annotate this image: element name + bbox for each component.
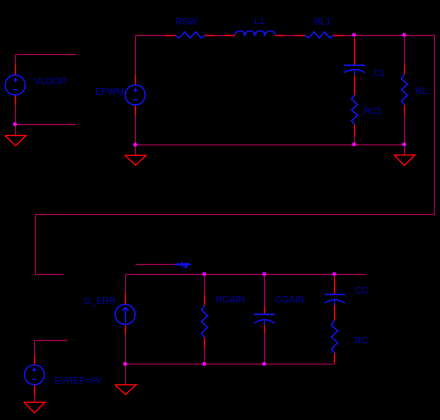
svg-text:RGAIN: RGAIN	[216, 295, 245, 305]
svg-text:VLOOP: VLOOP	[35, 76, 67, 86]
svg-text:RC1: RC1	[364, 106, 382, 116]
svg-text:RSW: RSW	[175, 16, 197, 26]
svg-text:RL: RL	[415, 86, 427, 96]
svg-text:EPWM: EPWM	[95, 86, 124, 96]
svg-text:CC: CC	[355, 285, 369, 295]
svg-text:EVREF=0V: EVREF=0V	[55, 375, 103, 385]
svg-text:G_ERR: G_ERR	[84, 296, 116, 306]
svg-text:CGAIN: CGAIN	[275, 294, 304, 304]
svg-text:RL1: RL1	[314, 16, 331, 26]
svg-text:C1: C1	[374, 68, 386, 78]
svg-text:RC: RC	[355, 335, 369, 345]
svg-text:L1: L1	[254, 16, 264, 26]
